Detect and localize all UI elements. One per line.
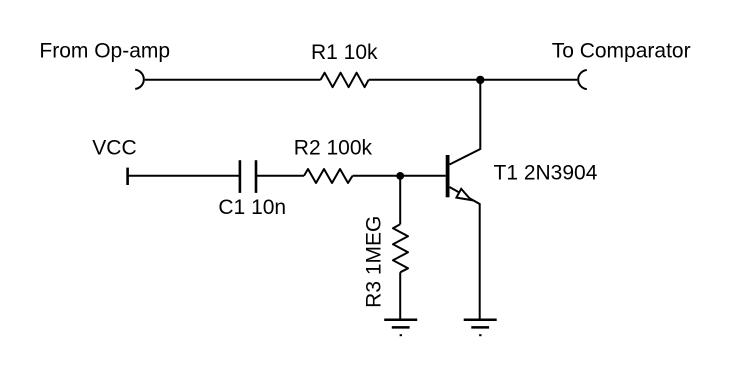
node base junction bbox=[396, 172, 404, 180]
svg-text:T1 2N3904: T1 2N3904 bbox=[494, 161, 598, 184]
resistor R3 bbox=[393, 224, 408, 272]
transistor Q1 emitter line bbox=[450, 187, 480, 319]
capacitor C1 plate right bbox=[255, 160, 258, 193]
svg-text:R2 100k: R2 100k bbox=[294, 137, 373, 160]
svg-text:C1 10n: C1 10n bbox=[218, 196, 286, 219]
terminal VCC bbox=[126, 168, 129, 185]
capacitor C1 plate left bbox=[239, 160, 242, 193]
ground symbol right bbox=[464, 320, 497, 335]
node collector junction bbox=[476, 76, 484, 84]
transistor Q1 base bar bbox=[446, 155, 450, 197]
wire collector drop bbox=[450, 80, 481, 165]
connector output to comparator bbox=[578, 70, 587, 89]
wire top rail left bbox=[145, 79, 321, 81]
wire VCC to C1 bbox=[128, 175, 240, 177]
connector input from op-amp bbox=[135, 70, 144, 89]
resistor R1 bbox=[321, 73, 369, 88]
transistor Q1 emitter arrow bbox=[456, 189, 471, 200]
svg-text:To Comparator: To Comparator bbox=[552, 40, 691, 63]
ground symbol left bbox=[384, 320, 417, 335]
svg-text:R3 1MEG: R3 1MEG bbox=[363, 216, 386, 308]
wire C1 to R2 bbox=[256, 175, 304, 177]
svg-text:From Op-amp: From Op-amp bbox=[39, 40, 170, 63]
wire R3 to ground bbox=[399, 272, 401, 319]
svg-text:R1 10k: R1 10k bbox=[311, 41, 378, 64]
svg-text:VCC: VCC bbox=[92, 136, 136, 159]
wire R2 to base bbox=[353, 175, 446, 177]
resistor R2 bbox=[304, 169, 353, 183]
wire top rail right bbox=[369, 79, 578, 81]
wire base junction to R3 bbox=[399, 176, 401, 224]
